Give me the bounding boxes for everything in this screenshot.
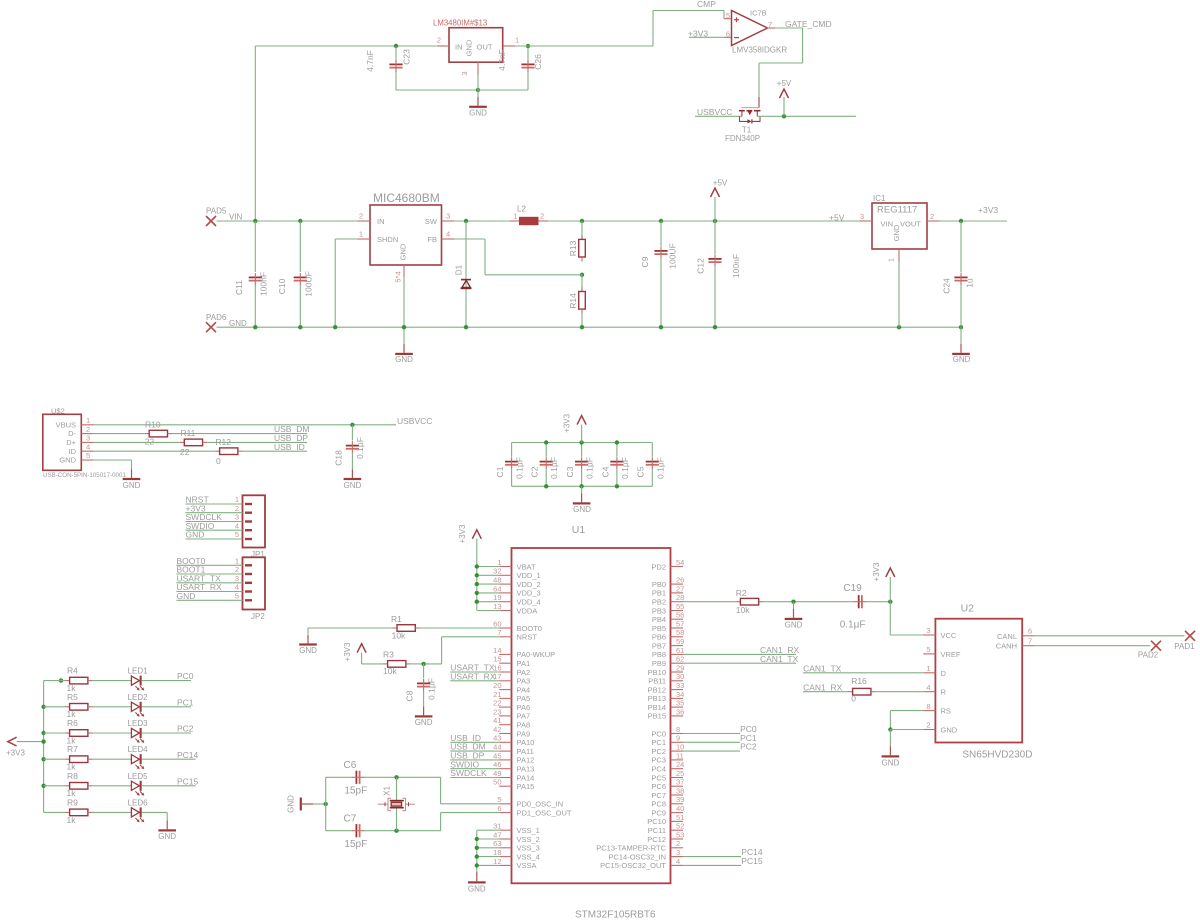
svg-text:R13: R13 [568,240,578,256]
label net USB_DP [274,433,308,443]
junction VDD bundle [475,600,479,604]
ground below R2 node [785,602,803,630]
connector U$2 USB-CON-5PIN [43,406,127,479]
wire R2 to C19 [763,601,855,603]
svg-text:0.1μF: 0.1μF [655,457,665,479]
junction GND bus C12 [713,325,717,329]
svg-text:PA5: PA5 [517,694,531,703]
svg-text:55: 55 [676,602,684,611]
svg-text:PC4: PC4 [651,765,666,774]
ground below C24 [952,327,970,364]
pin 22 PA6 of U1 [493,699,530,712]
svg-text:LED1: LED1 [128,667,149,676]
svg-text:GND: GND [468,884,486,893]
label net USBVCC [697,107,732,117]
svg-text:PC1: PC1 [651,738,666,747]
wire MIC4680 GND pin to bus [403,277,405,327]
svg-text:PC2: PC2 [740,742,757,752]
junction LED bus [41,757,45,761]
wire net GATE_CMD [775,27,803,29]
svg-text:LED4: LED4 [128,745,149,754]
svg-text:1: 1 [887,258,896,262]
junction GND bus MIC gnd [402,325,406,329]
junction R13/R14 [580,273,584,277]
svg-text:R8: R8 [67,771,78,781]
CAN transceiver U2 SN65HVD230D [923,603,1034,761]
pin 38 PC7 of U1 [651,786,684,799]
label net USB_DP [450,751,484,761]
svg-text:PA9: PA9 [517,729,531,738]
junction C18 [350,423,354,427]
svg-text:VIN: VIN [229,213,243,222]
junction R13 top [580,219,584,223]
junction VSS bundle [475,846,479,850]
svg-text:R12: R12 [215,437,231,447]
wire net CAN1_RX from PB8 [683,653,796,655]
wire FB down [484,239,486,275]
svg-text:0.1μF: 0.1μF [585,457,595,479]
pin 34 PB13 of U1 [648,690,685,703]
wire net NRST to JP1 [186,503,243,505]
pin 57 PB5 of U1 [652,619,685,632]
svg-text:CAN1_TX: CAN1_TX [803,663,842,673]
wire net LM3480-IN horizontal [255,45,437,47]
svg-text:R10: R10 [145,419,161,429]
svg-text:3: 3 [446,212,450,221]
svg-text:50: 50 [493,778,501,787]
label net PC15 [177,776,199,786]
svg-text:PB8: PB8 [652,650,666,659]
wire crystal gnd [313,803,326,805]
svg-text:CANH: CANH [996,642,1017,651]
svg-text:PA4: PA4 [517,685,531,694]
wire net CMP drop to op-amp pin 5 [723,11,725,19]
svg-text:1: 1 [926,664,930,673]
label net SWDCLK [450,768,487,778]
svg-text:19: 19 [493,593,501,602]
svg-text:FB: FB [427,235,437,244]
svg-text:USBVCC: USBVCC [397,416,432,426]
resistor R13 [568,221,585,262]
svg-text:7: 7 [768,20,772,29]
svg-text:10k: 10k [736,605,750,615]
svg-text:IN: IN [377,217,385,226]
pin 15 PA1 of U1 [493,655,530,668]
wire ID to R12 [94,450,216,452]
label net PC14 at U1 [741,847,763,857]
svg-text:VOUT: VOUT [900,220,921,229]
svg-text:R11: R11 [180,428,195,438]
svg-text:PAD5: PAD5 [206,207,227,216]
pin 31 VSS_1 of U1 [493,822,540,835]
wire R4 to LED1 [92,680,131,682]
label net PC0 at U1 [740,724,757,734]
ground at R1 [299,635,317,656]
junction U2 GND [888,727,892,731]
svg-text:GND: GND [465,39,474,56]
svg-text:5: 5 [235,530,239,539]
pin 1 VBAT of U1 [497,558,536,571]
svg-text:PA14: PA14 [517,773,535,782]
junction VDD bundle [475,591,479,595]
op-amp IC7B LMV358IDGKR [724,9,787,55]
svg-text:63: 63 [493,839,501,848]
svg-text:NRST: NRST [517,633,538,642]
svg-text:54: 54 [676,558,684,567]
wire net USBVCC [695,115,742,117]
svg-text:7: 7 [1028,636,1032,645]
svg-text:VREF: VREF [941,650,961,659]
svg-text:34: 34 [676,690,684,699]
svg-text:2: 2 [540,212,544,221]
svg-text:CAN1_TX: CAN1_TX [760,654,799,664]
svg-text:25: 25 [676,769,684,778]
svg-text:24: 24 [676,760,684,769]
svg-text:GND: GND [395,355,413,364]
svg-text:3: 3 [676,848,680,857]
ground below U2 [882,730,900,768]
wire USB GND [94,460,132,469]
svg-text:+3V3: +3V3 [563,413,572,432]
svg-text:C5: C5 [636,466,646,477]
pin 12 VSSA of U1 [493,857,536,870]
resistor R1 10k [391,614,420,641]
svg-text:D1: D1 [455,264,464,275]
capacitor C26 4.7nF [497,49,543,72]
svg-text:1: 1 [497,558,501,567]
wire SHDN down to GND bus [334,239,336,327]
pin 20 PA4 of U1 [493,681,530,694]
resistor R7 1k [65,744,92,771]
wire LED row 2 left [44,706,66,708]
wire net SWDCLK to U1 [450,777,499,779]
svg-text:U2: U2 [961,603,975,615]
pin 23 PA7 of U1 [493,707,530,720]
regulator IC MIC4680BM [358,191,455,283]
svg-text:PB5: PB5 [652,624,666,633]
svg-text:+3V3: +3V3 [6,748,25,757]
svg-text:USB_ID: USB_ID [274,442,305,452]
label net USB_ID [274,442,305,452]
wire LED6 to gnd [142,812,168,820]
wire D- to R10 [94,433,145,435]
svg-text:OUT: OUT [477,43,493,52]
junction rail top [579,440,583,444]
svg-text:VBUS: VBUS [56,420,76,429]
wire U2 GND [890,729,923,731]
LED LED2 [128,693,149,717]
pin 62 PB9 of U1 [652,655,685,668]
junction VSS bundle [475,837,479,841]
wire net USB_DP to U1 [450,759,499,761]
svg-text:SN65HVD230D: SN65HVD230D [962,750,1032,761]
junction VSS bundle [475,854,479,858]
svg-text:R2: R2 [736,588,747,598]
wire net +3V3 output [940,220,1008,222]
svg-text:PB15: PB15 [648,712,666,721]
capacitor C10 100UF [277,221,314,327]
svg-text:R14: R14 [568,293,578,309]
wire VSS row 31 [477,838,499,840]
junction crystal bottom [394,829,398,833]
pin 13 VDDA of U1 [493,602,537,615]
svg-text:X1: X1 [383,786,392,796]
svg-text:0.1μF: 0.1μF [620,457,630,479]
svg-text:100UF: 100UF [304,271,314,297]
svg-text:1: 1 [359,230,363,239]
capacitor C23 4.7nF [365,49,412,72]
pin 45 PA12 of U1 [493,751,534,764]
junction VDD bundle [475,582,479,586]
label net +3V3 [186,503,206,513]
label net PC2 at U1 [740,742,757,752]
svg-text:PC2: PC2 [177,724,194,734]
svg-text:8: 8 [926,702,930,711]
pin 54 PD2 of U1 [651,558,684,571]
svg-text:28: 28 [676,593,684,602]
svg-text:33: 33 [676,681,684,690]
label net CAN1_TX at U1 [760,654,799,664]
svg-text:SW: SW [425,217,438,226]
wire R9 to LED6 [92,811,131,813]
pin 8 PC0 of U1 [651,725,683,738]
pin 48 VDD_2 of U1 [493,576,541,589]
svg-text:SHDN: SHDN [377,235,398,244]
svg-text:C6: C6 [344,760,357,771]
pin 58 PB6 of U1 [652,628,685,641]
svg-text:41: 41 [493,716,501,725]
svg-text:LMV358IDGKR: LMV358IDGKR [732,46,787,55]
pin 25 PC5 of U1 [651,769,684,782]
svg-text:C18: C18 [334,450,344,466]
svg-text:R9: R9 [67,797,78,807]
pin 44 PA11 of U1 [493,743,534,756]
svg-text:C4: C4 [600,466,610,477]
wire net BOOT1 to JP2 [177,573,243,575]
wire net PC1 from U1 [683,741,740,743]
junction GND bus IC1 gnd [897,325,901,329]
svg-text:43: 43 [493,734,501,743]
svg-text:PC1: PC1 [177,697,194,707]
pin 41 PA8 of U1 [493,716,530,729]
svg-text:1: 1 [515,36,519,45]
pin 19 VDD_4 of U1 [493,593,541,606]
svg-text:PA7: PA7 [517,712,531,721]
wire VDD row 0 [477,566,499,568]
capacitor C18 0.1uF [334,425,366,469]
svg-text:R7: R7 [67,744,78,754]
wire net PC2 from U1 [683,750,740,752]
pin 47 VSS_2 of U1 [493,830,540,843]
ground below C18 [344,469,362,490]
svg-text:6: 6 [1028,627,1032,636]
svg-text:51: 51 [676,813,684,822]
pin 4 PC15-OSC32_OUT of U1 [600,857,683,870]
voltage regulator U$13 LM3480IM [433,19,519,76]
svg-text:PA15: PA15 [517,782,535,791]
supply flag +5V above C12 [711,179,728,222]
svg-text:15pF: 15pF [344,839,367,850]
resistor R14 [568,275,585,327]
pin 7 NRST of U1 [497,628,537,641]
svg-text:0.1μF: 0.1μF [355,437,365,459]
wire net SWDIO to JP1 [186,529,243,531]
svg-text:62: 62 [676,655,684,664]
wire net USB_DP [207,441,307,443]
svg-text:4: 4 [446,230,450,239]
svg-text:10k: 10k [383,666,397,676]
label net USART_RX [177,582,223,592]
label net USB_DM [274,424,309,434]
svg-text:PC9: PC9 [651,808,666,817]
label net USART_TX [450,663,495,673]
pin 17 PA3 of U1 [493,672,530,685]
svg-text:USBVCC: USBVCC [697,107,732,117]
svg-text:GND: GND [941,726,958,735]
svg-text:53: 53 [676,830,684,839]
svg-text:+5V: +5V [829,213,845,223]
svg-text:27: 27 [676,584,684,593]
junction C9 top [659,219,663,223]
wire SHDN net [335,238,357,240]
pin 63 VSS_3 of U1 [493,839,540,852]
svg-text:2: 2 [235,565,239,574]
svg-text:VDD_1: VDD_1 [517,571,541,580]
wire C26 top lead [527,46,529,62]
label net USART_RX [450,671,496,681]
junction VDD bundle [475,564,479,568]
svg-text:1: 1 [235,557,239,566]
svg-text:PB12: PB12 [648,685,666,694]
wire VDD row 4 [477,601,499,603]
svg-text:40: 40 [676,804,684,813]
label net SWDCLK [186,512,223,522]
wire net CAN1_TX to U2 D [803,672,923,674]
svg-text:C11: C11 [234,280,244,295]
wire R7 to LED4 [92,758,131,760]
svg-text:6: 6 [726,29,730,38]
wire OSC_IN [441,777,500,804]
svg-text:VSS_1: VSS_1 [517,826,540,835]
wire crystal top rail [326,776,441,778]
svg-text:PB6: PB6 [652,633,666,642]
svg-text:29: 29 [676,663,684,672]
pin 24 PC4 of U1 [651,760,684,773]
svg-text:GND: GND [399,243,408,260]
wire C23 bottom lead [395,71,397,91]
svg-text:8: 8 [676,725,680,734]
resistor R5 1k [65,692,92,719]
wire FB to divider [485,274,582,276]
wire net GND to JP1 [186,538,243,540]
junction C8 [421,662,425,666]
wire net USB_ID [242,450,307,452]
wire crystal left vertical [325,777,327,830]
LED LED5 [128,772,149,796]
svg-text:VDD_4: VDD_4 [517,598,541,607]
wire C19 to +3V3 node [866,601,891,603]
svg-text:56: 56 [676,611,684,620]
pin 21 PA5 of U1 [493,690,530,703]
pad PAD1 CANL [1174,631,1195,651]
wire GND rail bottom [512,485,653,487]
resistor R12 0 [215,437,242,466]
junction +5V at T1 [782,114,786,118]
label net PC2 [177,724,194,734]
junction LM3480 pin3 [476,88,480,92]
label net SWDIO [186,521,215,531]
pin 59 PB7 of U1 [652,637,685,650]
svg-text:VDD_3: VDD_3 [517,589,541,598]
svg-text:11: 11 [676,751,684,760]
junction GND bus C10 [298,325,302,329]
ground at crystal [287,795,314,813]
svg-text:VSS_2: VSS_2 [517,835,540,844]
svg-text:C23: C23 [402,49,412,65]
svg-text:4: 4 [235,521,239,530]
pin 6 PD1_OSC_OUT of U1 [497,804,572,817]
svg-text:12: 12 [493,857,501,866]
label net GND [177,591,196,601]
svg-text:PC10: PC10 [647,817,666,826]
pin 26 PB0 of U1 [652,576,685,589]
svg-text:LM3480IM#$13: LM3480IM#$13 [433,19,487,28]
svg-text:C3: C3 [565,466,575,477]
svg-text:36: 36 [676,707,684,716]
svg-text:GND: GND [186,530,205,540]
svg-text:14: 14 [493,646,501,655]
label net CAN1_RX at U1 [760,645,800,655]
svg-text:USB-CON-5PIN-105017-0001: USB-CON-5PIN-105017-0001 [43,472,126,479]
svg-text:PA3: PA3 [517,677,531,686]
svg-text:GND: GND [229,319,247,328]
wire net CAN1_TX from PB9 [683,662,796,664]
svg-text:44: 44 [493,743,501,752]
svg-text:CMP: CMP [697,0,716,9]
pin 3 PC14-OSC32_IN of U1 [608,848,683,861]
wire to U2 VCC [890,602,923,635]
pin 16 PA2 of U1 [493,663,530,676]
junction GND bus SHDN [333,325,337,329]
wire T1 drain to +5V junction [757,115,856,117]
svg-text:PB0: PB0 [652,580,666,589]
pin 29 PB10 of U1 [648,663,685,676]
capacitor C11 100nF [234,221,269,327]
svg-text:LED6: LED6 [128,798,149,807]
pad PAD5 VIN [206,207,243,226]
wire net USBVCC from VBUS [94,424,396,426]
svg-text:GND: GND [415,718,433,727]
header JP1 [235,495,266,559]
svg-text:PA12: PA12 [517,756,535,765]
wire BOOT0 to U1 [420,627,499,629]
ground below LED6 [158,821,176,842]
svg-text:PC7: PC7 [651,791,666,800]
svg-text:PB14: PB14 [648,703,666,712]
svg-text:CAN1_RX: CAN1_RX [803,682,843,692]
svg-text:3: 3 [926,626,930,635]
wire LED row 4 left [44,758,66,760]
wire +3V3 rail top [512,442,653,444]
supply flag +3V3 left arrow [6,737,44,757]
svg-text:+3V3: +3V3 [872,562,881,581]
svg-text:61: 61 [676,646,684,655]
svg-text:PA13: PA13 [517,765,535,774]
diode D1 [455,221,472,327]
svg-text:GND: GND [158,832,176,841]
label net NRST [186,495,209,505]
wire R5 to LED2 [92,706,131,708]
